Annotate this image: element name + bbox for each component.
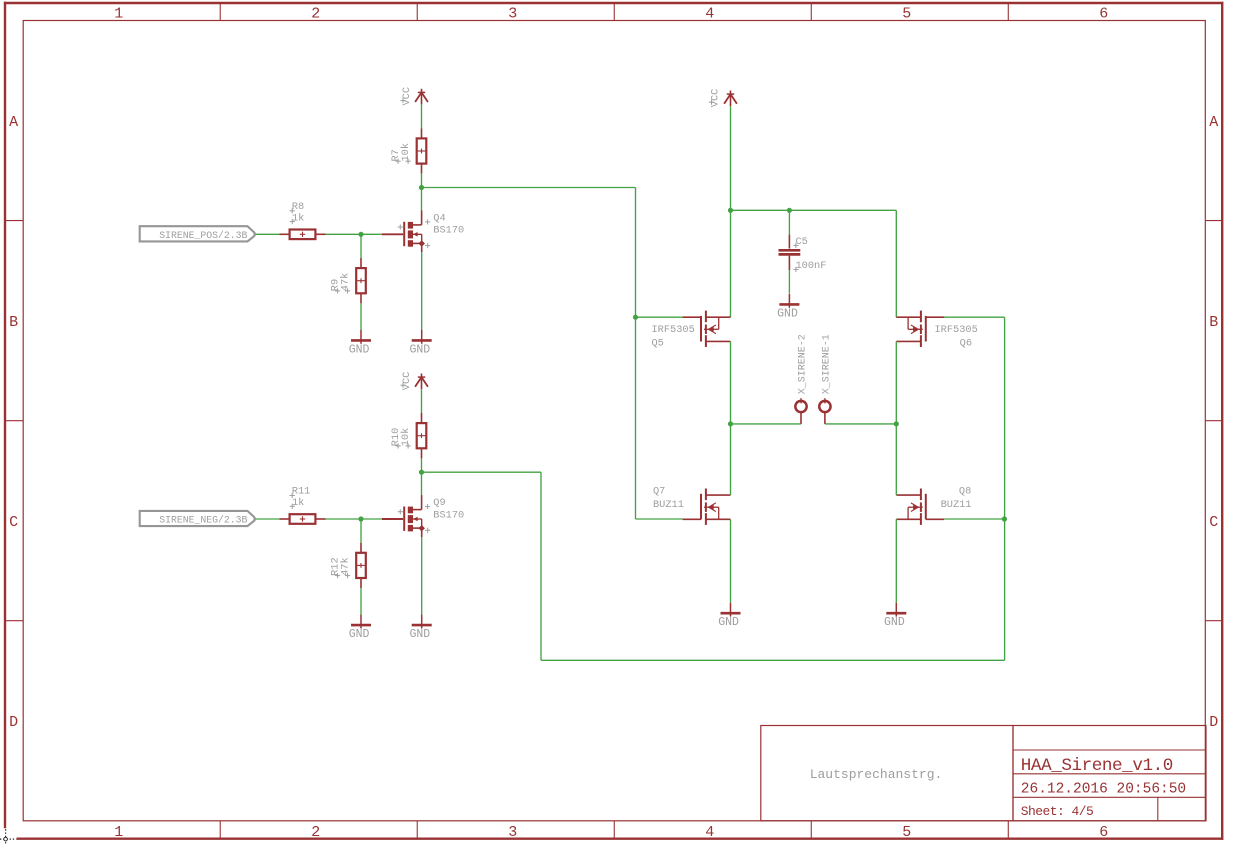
svg-text:Q8: Q8 — [959, 486, 971, 498]
svg-text:2: 2 — [311, 5, 320, 22]
svg-text:GND: GND — [718, 616, 739, 629]
svg-text:2: 2 — [311, 824, 320, 841]
svg-text:HAA_Sirene_v1.0: HAA_Sirene_v1.0 — [1021, 756, 1173, 776]
junction node R8/R9/Q4 — [358, 232, 363, 237]
resistor R12 47k — [330, 543, 366, 588]
ground under R12 — [349, 615, 371, 642]
svg-text:D: D — [1209, 714, 1218, 731]
svg-text:A: A — [1209, 114, 1218, 131]
wire Q7 source to GND — [730, 519, 732, 602]
title block text Lautsprechanstrg. — [810, 767, 943, 782]
wire flag to R8 — [255, 233, 279, 235]
svg-text:Q9: Q9 — [433, 497, 445, 509]
svg-text:3: 3 — [508, 824, 517, 841]
svg-text:C: C — [1209, 514, 1218, 531]
transistor Q6 IRF5305 — [896, 311, 977, 350]
svg-text:GND: GND — [409, 343, 430, 356]
resistor R9 47k — [330, 258, 366, 303]
wire Q5 drain to out — [730, 341, 732, 495]
wire to Q5 gate — [636, 316, 683, 318]
svg-text:5: 5 — [902, 5, 911, 22]
wire R12 to GND — [360, 588, 362, 615]
junction Q5 gate tap — [633, 315, 638, 320]
svg-text:4: 4 — [705, 5, 714, 22]
resistor R11 1k — [280, 486, 326, 524]
wire VCC to R7 — [421, 104, 423, 128]
transistor Q8 BUZ11 — [896, 486, 971, 525]
wire rail to C5 — [788, 210, 790, 234]
wire rail down to Q5 — [730, 210, 732, 317]
ground under C5 — [777, 294, 799, 321]
resistor R8 1k — [280, 201, 326, 239]
svg-text:B: B — [9, 314, 18, 331]
svg-text:6: 6 — [1099, 5, 1108, 22]
wire R8 to Q4 gate — [326, 233, 383, 235]
resistor R10 10k — [390, 413, 426, 458]
wire node B right — [422, 471, 542, 473]
wire Q9 source to GND — [421, 537, 423, 615]
svg-text:X_SIRENE-1: X_SIRENE-1 — [822, 334, 833, 394]
wire to Q8 gate — [944, 518, 1004, 520]
svg-text:IRF5305: IRF5305 — [652, 324, 695, 336]
ground under Q8 — [884, 603, 906, 630]
svg-text:Q6: Q6 — [960, 338, 972, 350]
junction right output — [894, 421, 899, 426]
wire right gate column — [1004, 317, 1006, 660]
svg-text:1k: 1k — [292, 213, 304, 225]
wire junction to R12 — [360, 519, 362, 543]
svg-text:D: D — [9, 714, 18, 731]
svg-text:SIRENE_POS/2.3B: SIRENE_POS/2.3B — [159, 230, 247, 241]
svg-text:C5: C5 — [796, 236, 808, 248]
svg-text:BS170: BS170 — [433, 225, 464, 237]
power VCC (bridge) — [709, 89, 737, 108]
transistor Q7 BUZ11 — [653, 486, 731, 525]
svg-text:4: 4 — [705, 824, 714, 841]
svg-text:GND: GND — [349, 628, 370, 641]
svg-text:Q7: Q7 — [653, 486, 665, 498]
svg-text:Lautsprechanstrg.: Lautsprechanstrg. — [810, 767, 943, 782]
svg-text:3: 3 — [508, 5, 517, 22]
wire to Q7 gate — [636, 518, 683, 520]
wire to Q6 gate — [944, 316, 1005, 318]
wire node A down to Q4 drain — [421, 188, 423, 211]
wire Q4 source to GND — [421, 252, 423, 330]
svg-text:6: 6 — [1099, 824, 1108, 841]
wire rail down to Q6 — [895, 210, 897, 317]
transistor Q4 BS170 — [382, 210, 464, 252]
svg-text:X_SIRENE-2: X_SIRENE-2 — [798, 334, 809, 394]
wire node B down — [540, 472, 542, 660]
wire R9 to GND — [360, 303, 362, 330]
junction left output — [728, 421, 733, 426]
svg-text:B: B — [1209, 314, 1218, 331]
wire R10 to node B — [421, 458, 423, 472]
svg-text:26.12.2016 20:56:50: 26.12.2016 20:56:50 — [1021, 781, 1186, 797]
title block date 26.12.2016 20:56:50 — [1021, 781, 1186, 797]
svg-text:GND: GND — [884, 616, 905, 629]
svg-text:1k: 1k — [292, 497, 304, 509]
transistor Q9 BS170 — [382, 495, 464, 537]
wire R7 to node A — [421, 174, 423, 188]
svg-text:IRF5305: IRF5305 — [935, 324, 978, 336]
junction node R11/R12/Q9 — [358, 516, 363, 521]
svg-text:Q4: Q4 — [433, 212, 445, 224]
ground under Q4 — [409, 330, 431, 357]
ground under Q9 — [409, 615, 431, 642]
net label SIRENE_POS/2.3B — [140, 226, 255, 241]
wire Q6 drain to out — [895, 341, 897, 495]
wire VCC to R10 — [421, 389, 423, 413]
svg-text:GND: GND — [409, 628, 430, 641]
node B junction — [419, 470, 424, 475]
svg-text:Sheet: 4/5: Sheet: 4/5 — [1021, 804, 1094, 819]
junction Q8 gate tap — [1002, 516, 1007, 521]
junction C5 tap — [787, 208, 792, 213]
wire Q8 source to GND — [895, 519, 897, 602]
svg-text:Q5: Q5 — [652, 338, 664, 350]
net label SIRENE_NEG/2.3B — [140, 511, 255, 526]
junction VCC rail left — [728, 208, 733, 213]
resistor R7 10k — [390, 128, 426, 173]
svg-text:1: 1 — [114, 5, 123, 22]
node A junction — [419, 185, 424, 190]
svg-text:BS170: BS170 — [433, 509, 464, 521]
ground under R9 — [349, 330, 371, 357]
wire node B bottom run — [541, 659, 1005, 661]
power VCC (lower) — [400, 372, 428, 391]
wire VCC to rail — [730, 106, 732, 210]
wire VCC rail — [731, 209, 897, 211]
wire flag to R11 — [255, 518, 279, 520]
svg-text:47k: 47k — [340, 273, 352, 292]
connector pin X_SIRENE-2 — [795, 334, 808, 424]
title block sheet 4/5 — [1021, 804, 1094, 819]
title block box — [761, 726, 1206, 821]
ground under Q7 — [718, 603, 740, 630]
svg-text:5: 5 — [902, 824, 911, 841]
wire junction to R9 — [360, 234, 362, 258]
svg-text:BUZ11: BUZ11 — [653, 499, 684, 511]
svg-text:10k: 10k — [400, 428, 412, 447]
wire node B down to Q9 drain — [421, 472, 423, 495]
title block doc name HAA_Sirene_v1.0 — [1021, 756, 1173, 776]
wire C5 to GND — [788, 270, 790, 294]
svg-text:GND: GND — [777, 307, 798, 320]
wire left gate column — [635, 188, 637, 520]
svg-text:SIRENE_NEG/2.3B: SIRENE_NEG/2.3B — [159, 515, 247, 526]
connector pin X_SIRENE-1 — [819, 334, 832, 424]
wire R11 to Q9 gate — [326, 518, 383, 520]
svg-text:1: 1 — [114, 824, 123, 841]
power VCC (upper) — [400, 87, 428, 106]
svg-text:BUZ11: BUZ11 — [941, 499, 972, 511]
wire node A right — [422, 187, 636, 189]
svg-text:100nF: 100nF — [796, 260, 827, 272]
svg-text:GND: GND — [349, 343, 370, 356]
capacitor C5 100nF — [779, 235, 827, 272]
svg-text:47k: 47k — [340, 557, 352, 576]
svg-text:10k: 10k — [400, 143, 412, 162]
transistor Q5 IRF5305 — [652, 311, 731, 350]
wire right out to X_SIRENE-1 — [825, 423, 896, 425]
wire left out to X_SIRENE-2 — [731, 423, 802, 425]
svg-text:C: C — [9, 514, 18, 531]
svg-text:A: A — [9, 114, 18, 131]
